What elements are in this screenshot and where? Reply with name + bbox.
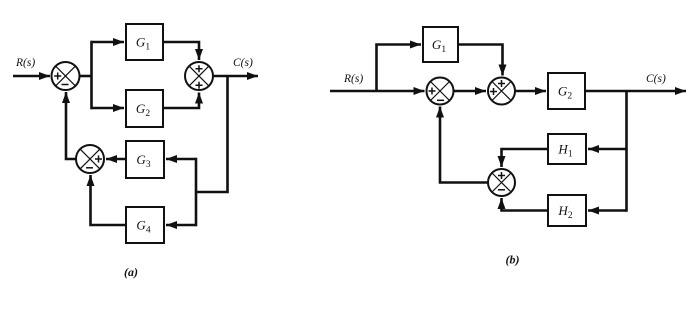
svg-text:(b): (b) [506, 253, 520, 267]
svg-text:C(s): C(s) [233, 57, 253, 69]
svg-text:R(s): R(s) [15, 57, 35, 69]
svg-text:R(s): R(s) [343, 73, 363, 85]
svg-text:(a): (a) [124, 265, 138, 279]
svg-text:C(s): C(s) [646, 73, 666, 85]
